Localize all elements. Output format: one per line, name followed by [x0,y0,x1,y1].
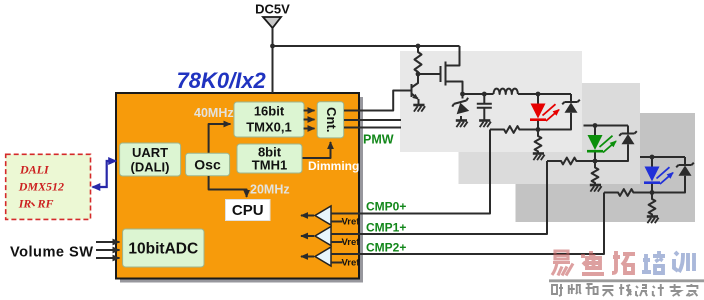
block Osc [186,153,230,176]
svg-text:Dimming: Dimming [308,159,359,173]
svg-text:DC5V: DC5V [255,2,290,17]
LED D4 emission arrows [600,136,617,153]
svg-text:DALI: DALI [19,163,50,177]
wire Dimming TMH1 to Cnt [303,142,331,158]
ground R7 [647,217,659,224]
LED D6 blue [644,157,660,193]
node LED1 anode [536,92,541,97]
comparator U1 [315,206,331,225]
block CPU [226,200,271,221]
wire CMP2+ net [331,193,604,255]
ground R5 [590,185,602,192]
wire comparator U2 output [301,235,314,237]
wire Cnt output line 3 [344,127,401,129]
node R1 top [416,44,421,49]
node R1 bottom [416,72,421,77]
svg-text:78K0/Ix2: 78K0/Ix2 [177,68,267,93]
block Cnt. [317,102,344,138]
driver stage background 1 (red LED stage) [400,51,582,152]
svg-text:DMX512: DMX512 [18,180,64,194]
svg-text:10bitADC: 10bitADC [128,241,198,258]
dashed input box DALI/DMX512/IR,RF [6,154,91,219]
block 16bit TMX0,1 [234,102,304,137]
wire Vref input U1 [331,221,343,223]
svg-text:20MHz: 20MHz [250,183,290,197]
transistor Q1 NPN driver [412,74,419,105]
wire node A to inductor [463,93,494,95]
wire stage 3 feed [640,156,685,158]
ground C1 [479,121,491,128]
svg-text:CMP0+: CMP0+ [366,200,406,214]
LED D3 emission arrows [543,104,560,121]
resistor R7 sense shunt [649,193,656,217]
block UART (DALI) [120,143,181,176]
svg-text:40MHz: 40MHz [194,106,234,120]
svg-text:TMH1: TMH1 [252,158,287,173]
resistor R6 sense series [604,189,652,196]
wire CMP1+ net [331,161,547,234]
LED D6 emission arrows [657,167,674,184]
svg-text:TMX0,1: TMX0,1 [246,120,292,135]
node sense junction 1 [536,127,541,132]
wire DC5V top rail [273,45,460,47]
node sense junction 2 [593,159,598,164]
watermark underline [549,279,704,282]
node LED2 anode [593,123,598,128]
wire comparator U1 output [301,215,314,217]
block 8bit TMH1 [237,144,302,173]
wire Cnt output line 1 to Q1 base [344,91,412,111]
resistor R2 sense series [490,126,538,133]
wire 20MHz clock arrow Osc to CPU [209,176,247,197]
svg-text:Vref: Vref [342,217,361,228]
wire DC5V stem [272,28,274,93]
wire L1 to LED branch [518,93,571,95]
svg-text:(DALI): (DALI) [131,160,170,175]
diode D2 protection [538,94,580,130]
diode D5 protection [595,126,637,162]
wire stage 2 feed [584,125,629,127]
wire Vref input U3 [331,262,343,264]
ground Q1 emitter [413,105,425,112]
diode D7 protection [652,157,694,193]
ground D1 [456,121,468,128]
ground R3 [533,154,545,161]
wire TMX to Cnt arrow 1 [304,110,315,112]
comparator U2 [315,227,331,246]
capacitor C1 [477,94,492,120]
MCU block drop shadow [120,97,363,283]
LED D4 green [587,126,603,162]
node A switch node [460,92,465,97]
driver stage background 2 (green LED stage) [459,83,641,184]
watermark logo text [552,251,635,276]
wire ADC input 2 [96,249,120,251]
resistor R3 sense shunt [535,130,542,154]
wire DALI bidirectional arrow [93,161,117,187]
wire TMX to Cnt arrow 3 [304,128,315,130]
svg-text:Cnt.: Cnt. [324,107,339,132]
transistor M1 PMOS [441,46,463,94]
svg-text:RF: RF [37,197,54,211]
wire R1 to gate [418,73,441,75]
svg-text:CPU: CPU [232,202,264,219]
svg-text:Volume SW: Volume SW [10,245,93,261]
watermark slogan [552,284,697,296]
block 10bitADC [123,229,204,267]
wire Vref input U2 [331,241,343,243]
svg-text:CMP2+: CMP2+ [366,241,406,255]
diode D1 freewheel [451,94,471,120]
svg-text:16bit: 16bit [254,104,285,119]
node sense junction 3 [650,190,655,195]
node C1 top [482,92,487,97]
wire CMP0+ net [331,130,490,214]
wire ADC input 3 [96,257,120,259]
svg-text:PMW: PMW [363,133,394,147]
svg-text:Osc: Osc [194,157,221,173]
wire Cnt output line 2 [344,119,401,121]
MCU block 78K0/Ix2 [116,93,359,279]
resistor R1 gate pull-up [415,46,422,74]
node rail junction [270,44,275,49]
node LED3 anode [650,155,655,160]
svg-text:Vref: Vref [342,258,361,269]
wire comparator U3 output [301,256,314,258]
wire TMX to Cnt arrow 2 [304,119,315,121]
svg-text:CMP1+: CMP1+ [366,221,406,235]
svg-text:IR: IR [18,197,32,211]
wire 40MHz clock arrow Osc to TMX [209,124,231,153]
resistor R5 sense shunt [592,161,599,185]
svg-text:Vref: Vref [342,237,361,248]
inductor L1 [494,89,518,94]
LED D3 red [530,94,546,130]
wire ADC input 1 [96,241,120,243]
svg-text:UART: UART [132,145,168,160]
resistor R4 sense series [547,158,595,165]
comparator U3 [315,247,331,266]
driver stage background 3 (blue LED stage) [516,113,696,222]
